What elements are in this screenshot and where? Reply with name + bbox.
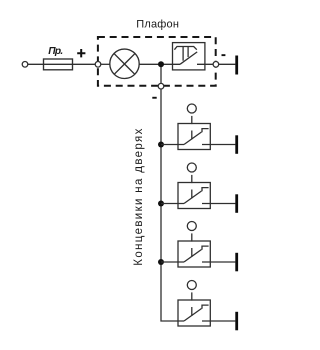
door switch S4 (limit switch)	[178, 222, 210, 268]
wire: lamp to switch S1	[139, 63, 180, 65]
svg-text:Концевики на дверях: Концевики на дверях	[133, 127, 145, 265]
fuse Пр.	[44, 59, 73, 70]
wire: terminal to lamp	[101, 63, 110, 65]
door switch S5 (limit switch)	[178, 281, 210, 327]
terminal: supply input	[22, 62, 28, 68]
lamp EL (plafond lamp)	[110, 49, 139, 78]
wire: bus to switch S2	[161, 144, 184, 146]
bus wire: negative rail down to door switches	[161, 64, 184, 321]
terminal: enclosure - tap to bus	[158, 83, 164, 89]
junction node: branch 1	[158, 142, 164, 148]
chassis ground (vehicle body)	[235, 194, 238, 213]
wire: switch S1 to enclosure - terminal	[197, 63, 213, 65]
enclosure Плафон (dashed)	[98, 37, 216, 86]
wire: input through fuse to enclosure terminal	[28, 63, 95, 65]
wire: bus to switch S4	[161, 261, 184, 263]
polarity label +	[77, 49, 85, 57]
chassis ground (vehicle body)	[235, 312, 238, 331]
polarity label -	[222, 54, 226, 56]
svg-text:Плафон: Плафон	[136, 19, 179, 31]
wire: switch S5 to chassis	[202, 320, 235, 322]
wire: bus to switch S3	[161, 203, 184, 205]
door switch S2 (limit switch)	[178, 104, 210, 150]
terminal: enclosure + input	[95, 62, 101, 68]
switch S1 (plafond manual switch)	[173, 43, 205, 70]
junction node: branch 3	[158, 259, 164, 265]
door switch S3 (limit switch)	[178, 163, 210, 209]
wire: terminal to chassis	[219, 63, 236, 65]
terminal: enclosure - output	[213, 62, 219, 68]
wire: switch S3 to chassis	[202, 203, 235, 205]
chassis ground (vehicle body)	[235, 56, 238, 75]
junction node: lamp / switch / bus	[158, 61, 164, 67]
svg-text:Пр.: Пр.	[48, 46, 62, 57]
wire: switch S4 to chassis	[202, 261, 235, 263]
chassis ground (vehicle body)	[235, 253, 238, 271]
junction node: branch 2	[158, 201, 164, 207]
polarity label -	[152, 97, 156, 99]
chassis ground (vehicle body)	[235, 135, 238, 154]
wire: switch S2 to chassis	[202, 144, 235, 146]
